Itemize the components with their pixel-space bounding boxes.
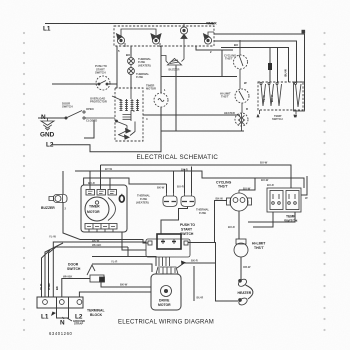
temp switch contact V1 <box>260 83 266 107</box>
ground symbol <box>41 118 54 130</box>
hi-limit thermostat body (wiring) <box>234 239 248 257</box>
wire right nest middle <box>214 41 297 82</box>
wire motor to heater chain (N feed) <box>143 114 240 116</box>
wire top rail B <box>75 171 304 188</box>
temp switch inner rect 2 <box>286 191 299 210</box>
wire cycling left ear to push-start drop <box>215 201 228 243</box>
wire top rail C <box>84 178 167 185</box>
wire from timer to right nest outer <box>214 34 305 110</box>
timer motor circle (wiring) <box>85 197 109 221</box>
timer cam switch 4 <box>204 32 215 44</box>
door switch body (wiring) <box>87 265 105 282</box>
timer cam switch 1 <box>117 34 126 47</box>
timer cam switch 3 <box>180 24 187 47</box>
terminal L1 screw <box>43 300 48 305</box>
terminal block (wiring) <box>37 297 83 318</box>
wire thermal fuse to push start <box>161 207 188 235</box>
wire door switch lever feed <box>92 264 152 272</box>
wire drop timer to thermal fuse chain <box>130 46 132 57</box>
wire door switch bottom <box>101 282 151 287</box>
wire L2 bottom rail <box>52 131 244 152</box>
wire drop to timer terminal 1 <box>89 171 91 189</box>
ground label small <box>73 319 85 325</box>
motor feed stub <box>112 88 131 100</box>
wire buzzer riser <box>62 171 64 194</box>
motor winding coil 4 <box>136 99 139 111</box>
timer (wiring) outer box <box>81 185 127 232</box>
push switch plate terminals <box>148 241 188 245</box>
cycling thermostat (schematic) <box>234 40 248 89</box>
hi-limit thermostat (schematic) <box>235 89 249 113</box>
push to start switch schematic <box>96 76 110 90</box>
wire door switch WH-BK to N <box>62 279 90 298</box>
ground arrow <box>67 318 72 321</box>
left wire bundle vertical 3 <box>45 243 63 297</box>
temp switch bottom stubs <box>257 110 297 118</box>
left wire bundle vertical 4 <box>42 250 51 297</box>
left wire bundle vertical 2 <box>49 247 129 297</box>
timer terminal block 1 <box>86 190 95 196</box>
thermal fuse body (wiring) <box>181 193 195 207</box>
wire connector diagonal to BK-R heater feed <box>177 261 216 302</box>
wire buzzer loop bottom <box>161 76 237 78</box>
buzzer schematic <box>168 59 182 66</box>
wire drop to timer terminal 2 <box>100 165 102 189</box>
wire push start bundle to motor connector <box>159 257 170 266</box>
temp switch contact V2 <box>268 83 274 107</box>
temp switch outer box (wiring) <box>267 188 301 212</box>
wire nest drop extra <box>277 48 279 83</box>
wire L2 screw feed <box>79 292 151 297</box>
temp switch inner rect 1 <box>270 191 283 210</box>
wire right nest inner <box>221 48 289 83</box>
motor ladder bars <box>123 115 132 120</box>
heater (schematic) <box>235 113 248 131</box>
heater element wire <box>246 285 253 299</box>
motor winding coil 2 <box>125 99 128 111</box>
terminal N screw <box>59 300 64 305</box>
wire cycling to hi-limit <box>238 211 240 239</box>
timer bottom terminal strip <box>85 224 117 230</box>
temp switch contact V4 <box>295 83 302 108</box>
timer cam switch 2 <box>151 34 161 47</box>
junction square at top right <box>302 30 306 34</box>
wire N line <box>38 117 66 119</box>
wire temp switch drops <box>253 212 273 227</box>
motor winding coil 3 <box>131 99 134 111</box>
timer terminal block 3 <box>108 190 117 196</box>
wire fuse chain into motor box <box>130 74 132 88</box>
drive motor dashed box (schematic) <box>115 88 143 141</box>
temp switch dashed box (schematic) <box>258 82 303 110</box>
wire timer bottom right to push start <box>122 232 146 250</box>
door switch schematic <box>65 111 115 120</box>
temp switch contact V3 <box>276 83 282 107</box>
wire push to start left <box>52 83 98 85</box>
N arrow <box>63 317 65 319</box>
wire door switch top feed <box>92 257 156 267</box>
thermal fuse heater body (wiring) <box>163 193 177 207</box>
timer motor circle (schematic) <box>154 93 168 107</box>
push to start switch body <box>157 234 181 249</box>
L1 arrow <box>51 312 56 317</box>
wire buzzer2 down-diagonal <box>63 202 148 243</box>
left perforation dot column <box>23 32 25 331</box>
heater lug bottom (wiring) <box>238 297 249 307</box>
timer terminal block 2 <box>97 190 106 196</box>
wire buzzer left feed <box>161 56 168 64</box>
timer horn cone <box>108 198 116 221</box>
temp switch solid sub-box <box>294 82 305 111</box>
drive motor circle <box>161 286 172 297</box>
motor winding coil 1 <box>120 99 123 111</box>
right perforation dot column <box>323 32 325 331</box>
wire drop timer to timer motor <box>160 46 162 93</box>
left wire bundle vertical 1 <box>53 242 146 297</box>
wire timer motor to bottom rail <box>160 107 162 131</box>
wire push to start right to motor box <box>108 83 117 85</box>
thermal fuse schematic <box>128 64 135 74</box>
push to start switch plate <box>146 239 190 257</box>
temp switch rotated wire labels <box>262 69 288 102</box>
wire cycling loop <box>222 50 233 77</box>
heater fuse component on vertical <box>268 47 272 82</box>
wire push start right to heater drop <box>188 243 238 302</box>
overload box edge <box>84 120 94 138</box>
wire hi-limit to heater lug <box>240 257 242 281</box>
timer cam bracket wire <box>121 29 156 37</box>
wire drop to timer terminal 3 <box>109 178 111 189</box>
wire L1 top rail <box>45 23 214 25</box>
thermal fuse (heater) schematic <box>128 58 135 65</box>
drive motor box (wiring) <box>151 274 181 310</box>
scan noise filter def <box>0 0 1 1</box>
buzzer (wiring) <box>49 195 67 203</box>
wire timer bottom stubs <box>89 229 113 232</box>
wire left labels rotated <box>39 283 59 290</box>
wire fuse heater stubs <box>167 171 174 193</box>
drive motor connector <box>156 267 178 274</box>
wire buzzer right feed <box>182 46 185 62</box>
wire top rail A <box>101 165 292 188</box>
timer top-right component <box>119 194 124 202</box>
wire drop timer box left to motor box <box>116 46 118 88</box>
terminal L2 screw <box>77 300 82 305</box>
motor centrifugal switch <box>116 111 136 139</box>
wire cycling top feed <box>239 178 255 190</box>
wire drop cam3 <box>196 46 222 50</box>
timer motor shaft dot <box>95 201 98 204</box>
wire temp right W <box>301 176 307 195</box>
heater lug top (wiring) <box>237 278 248 288</box>
wire buzzer down to bottom rail <box>175 66 177 132</box>
wire fuse stubs <box>185 167 192 194</box>
timer T1 dashed box <box>114 26 214 46</box>
cycling thermostat body (wiring) <box>227 190 252 211</box>
tiny wire gauge labels schematic <box>118 43 248 121</box>
